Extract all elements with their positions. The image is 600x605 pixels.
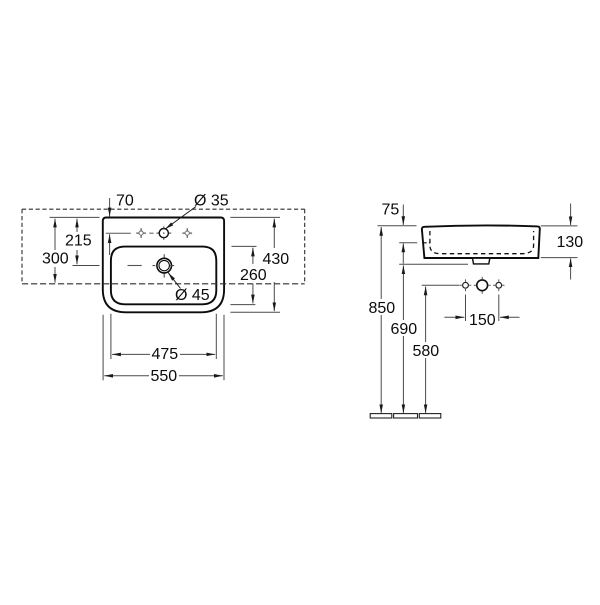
label 215 — [64, 235, 91, 248]
svg-text:300: 300 — [42, 251, 69, 268]
inner bowl contour (dashed, side view) — [430, 231, 534, 254]
svg-text:850: 850 — [369, 300, 396, 317]
tap hole left (optional, crosshair) — [136, 228, 146, 238]
svg-text:Ø 45: Ø 45 — [175, 287, 210, 304]
dim 70: arrows at rear rim to tap line — [109, 198, 111, 255]
dim 430 — [273, 219, 275, 312]
inner basin (top view) — [111, 247, 216, 305]
svg-text:75: 75 — [382, 201, 400, 218]
drain outlet (side view) — [473, 259, 490, 264]
dim 550 extension lines — [103, 315, 224, 381]
svg-text:430: 430 — [263, 251, 290, 268]
tap hole right (optional, crosshair) — [182, 228, 192, 238]
dim 550 — [104, 375, 223, 377]
basin outer rim (top view) — [103, 218, 224, 313]
dim 260 extension ticks — [230, 246, 256, 304]
dim 300 — [54, 219, 56, 283]
dim 75 top reference line (rim level) — [378, 225, 417, 227]
svg-text:215: 215 — [65, 233, 92, 250]
dim 690 reference line (under drain outlet) — [399, 263, 468, 265]
mounting holes centre line — [422, 284, 460, 286]
dim 260 — [252, 248, 254, 304]
tap hole centre (Ø35) — [156, 226, 171, 239]
dim 215/300 shared top extension line — [50, 216, 100, 218]
dim 475 extension lines — [111, 314, 216, 359]
svg-text:260: 260 — [240, 267, 267, 284]
mounting hole centre (drain stub) — [474, 277, 491, 294]
dim 150 extension lines — [466, 295, 499, 322]
svg-text:475: 475 — [152, 346, 179, 363]
dim 850 — [380, 227, 382, 413]
dim 150 arrows — [444, 316, 519, 318]
svg-text:150: 150 — [469, 312, 496, 329]
label 580 — [412, 344, 439, 357]
dim 475 — [112, 353, 215, 355]
dim 215 — [76, 219, 78, 265]
label 300 — [42, 253, 69, 266]
floor tile 2 — [394, 414, 418, 418]
leader line Ø45 — [168, 273, 180, 289]
label 475 — [151, 348, 179, 362]
label 850 — [368, 301, 395, 314]
wall outline bottom edge crossing the basin (dashed) — [22, 283, 305, 285]
dim 130 arrows — [570, 204, 572, 280]
svg-text:130: 130 — [557, 234, 584, 251]
mounting hole right — [493, 279, 504, 291]
leader line Ø35 — [165, 207, 196, 230]
svg-text:690: 690 — [391, 321, 418, 338]
label 430 — [262, 252, 289, 265]
dim 215 bottom tick at drain level — [73, 265, 100, 267]
tap hole centre line — [106, 232, 154, 234]
inner ledge dashed tick (75 level) — [424, 242, 431, 244]
label 260 — [240, 269, 267, 282]
label 550 — [150, 369, 178, 383]
svg-text:70: 70 — [116, 193, 134, 210]
svg-text:550: 550 — [151, 368, 178, 385]
floor tile 1 — [370, 414, 392, 418]
mounting hole left — [460, 279, 471, 291]
drain centre line dash — [128, 265, 142, 267]
dim 580 — [425, 287, 427, 414]
dim 690 — [402, 265, 404, 413]
dim 130 extension lines — [541, 226, 578, 258]
basin body (side view) — [422, 225, 540, 258]
svg-text:580: 580 — [413, 343, 440, 360]
label 690 — [390, 322, 417, 335]
svg-text:Ø 35: Ø 35 — [194, 193, 229, 210]
dim 75 arrows — [402, 205, 404, 264]
drain hole (Ø45) — [153, 254, 175, 277]
dim 430 extension lines — [230, 217, 280, 312]
floor tile 3 — [419, 414, 441, 418]
dim 75 lower reference line — [399, 242, 417, 244]
wall / installation outline (dashed rectangle) — [22, 209, 305, 284]
